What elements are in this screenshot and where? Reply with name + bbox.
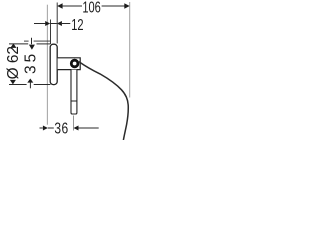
svg-text:36: 36: [54, 119, 68, 137]
svg-text:Ø 62: Ø 62: [5, 46, 22, 79]
svg-text:12: 12: [71, 16, 83, 33]
svg-text:35: 35: [23, 51, 40, 74]
svg-text:106: 106: [82, 0, 100, 16]
